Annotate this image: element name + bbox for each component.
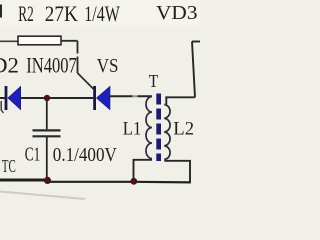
node junction C1 bottom [44, 177, 51, 184]
wire left to R2 [0, 40, 18, 42]
svg-text:T: T [149, 71, 159, 91]
faint scan crease bottom-left [0, 192, 85, 200]
node junction at C1 top [44, 95, 50, 101]
bottom bus mid segment [47, 181, 134, 183]
wire L1 bottom to junction [134, 160, 153, 181]
svg-text:IN4007: IN4007 [26, 53, 77, 78]
svg-text:D2: D2 [0, 53, 19, 78]
label R2 27K 1/4W [18, 1, 120, 26]
wire VS anode to transformer L1 [110, 95, 152, 97]
svg-text:TC: TC [2, 156, 16, 176]
svg-text:C1: C1 [25, 143, 41, 165]
left-edge text fragment [0, 5, 2, 18]
bottom bus right segment [134, 181, 191, 184]
wire L2 top hook [166, 97, 195, 104]
svg-text:VD3: VD3 [156, 2, 198, 24]
wire left edge to VD2 [0, 97, 5, 99]
capacitor C1 bottom wire [46, 137, 48, 180]
resistor R2 [18, 36, 61, 45]
label VD2 IN4007 (left-clipped) [0, 53, 77, 78]
capacitor C1 top wire [46, 98, 48, 129]
left-edge mark below VD2 [1, 101, 3, 113]
svg-text:0.1/400V: 0.1/400V [53, 144, 117, 166]
wire R2 right + corner down [61, 41, 78, 73]
wire L2 bottom to right corner [164, 161, 190, 183]
svg-text:R2: R2 [18, 1, 34, 26]
svg-text:1/4W: 1/4W [84, 1, 120, 26]
bottom bus left segment [0, 179, 47, 182]
node junction L1 bottom [130, 178, 137, 185]
svg-text:L2: L2 [173, 119, 194, 140]
wire rail VD2 to VS [21, 97, 94, 99]
diode VD2 [5, 86, 21, 110]
wire VD3 drop (slightly skewed) [192, 42, 195, 98]
capacitor C1 [33, 130, 61, 136]
inductor L2 winding [164, 105, 170, 160]
wire gate diagonal to VS [78, 73, 94, 89]
transformer core [156, 94, 161, 162]
inductor L1 winding [146, 97, 152, 159]
svg-text:L1: L1 [123, 119, 142, 140]
svg-text:VS: VS [97, 55, 119, 77]
svg-text:27K: 27K [45, 1, 78, 26]
thyristor VS [93, 86, 110, 110]
wire VD3 top right [192, 41, 200, 43]
